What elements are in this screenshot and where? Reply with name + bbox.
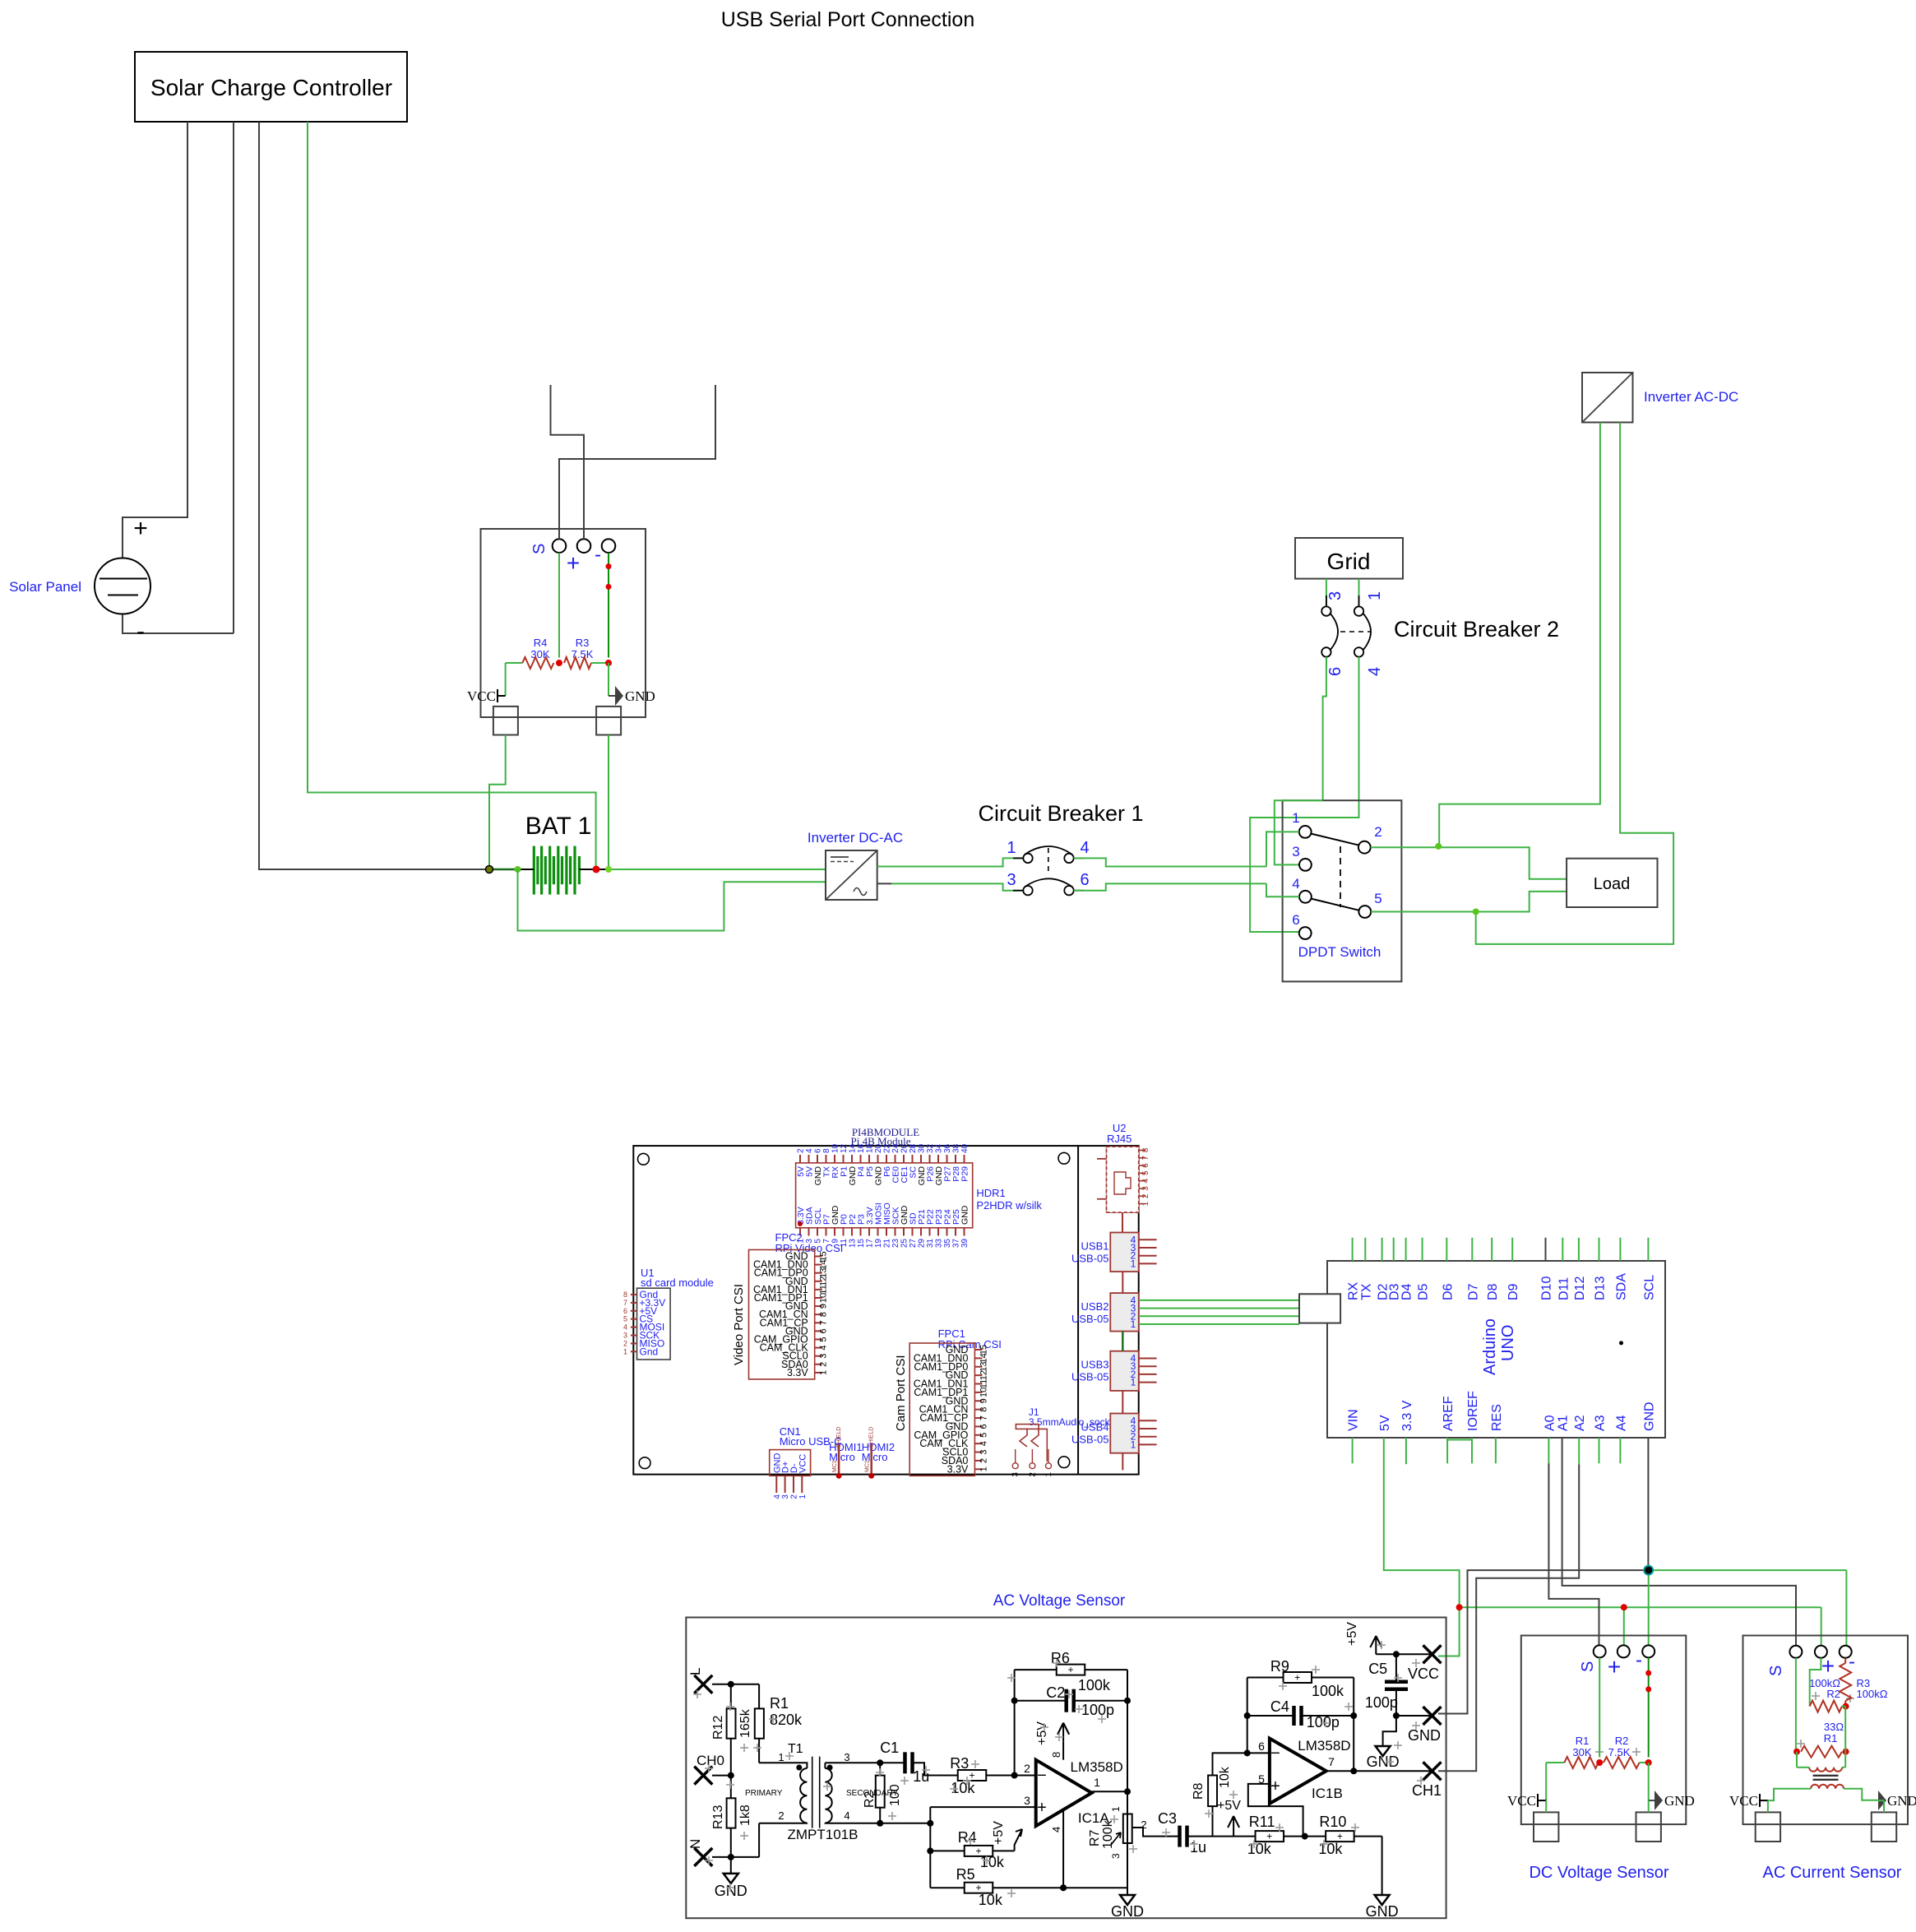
svg-text:25: 25 bbox=[900, 1239, 909, 1249]
svg-text:5: 5 bbox=[819, 1337, 829, 1341]
svg-text:2: 2 bbox=[1374, 824, 1381, 840]
svg-text:+: + bbox=[1037, 1799, 1047, 1817]
svg-text:D5: D5 bbox=[1417, 1283, 1431, 1300]
svg-text:GND: GND bbox=[960, 1205, 970, 1225]
svg-text:37: 37 bbox=[952, 1239, 961, 1249]
svg-text:3: 3 bbox=[844, 1751, 849, 1763]
svg-text:23: 23 bbox=[891, 1239, 900, 1249]
svg-text:1: 1 bbox=[1131, 1318, 1136, 1330]
svg-text:1: 1 bbox=[1292, 810, 1299, 826]
svg-text:USB-05: USB-05 bbox=[1071, 1434, 1109, 1446]
svg-text:40: 40 bbox=[960, 1143, 970, 1153]
svg-text:820k: 820k bbox=[770, 1712, 803, 1728]
svg-text:7: 7 bbox=[1141, 1156, 1150, 1161]
svg-text:USB Serial Port Connection: USB Serial Port Connection bbox=[721, 8, 974, 31]
svg-text:D11: D11 bbox=[1557, 1277, 1571, 1300]
svg-text:R2: R2 bbox=[863, 1791, 877, 1808]
svg-text:+: + bbox=[1337, 1831, 1343, 1842]
svg-text:4: 4 bbox=[805, 1148, 814, 1153]
svg-text:16: 16 bbox=[857, 1143, 866, 1153]
svg-text:3: 3 bbox=[1326, 591, 1344, 600]
svg-text:5: 5 bbox=[1374, 891, 1381, 906]
svg-text:-: - bbox=[137, 618, 145, 645]
svg-text:10k: 10k bbox=[1218, 1766, 1232, 1788]
svg-text:35: 35 bbox=[943, 1239, 952, 1249]
svg-text:−: − bbox=[1037, 1767, 1047, 1785]
svg-text:Inverter DC-AC: Inverter DC-AC bbox=[808, 830, 903, 846]
svg-text:10: 10 bbox=[819, 1293, 829, 1303]
svg-text:R10: R10 bbox=[1319, 1814, 1346, 1830]
svg-text:+: + bbox=[1266, 1831, 1272, 1842]
svg-text:D9: D9 bbox=[1506, 1283, 1520, 1300]
svg-text:39: 39 bbox=[960, 1239, 970, 1249]
svg-text:100k: 100k bbox=[1078, 1677, 1111, 1693]
svg-text:GND: GND bbox=[1642, 1402, 1656, 1431]
svg-text:10: 10 bbox=[831, 1143, 840, 1153]
svg-text:10k: 10k bbox=[951, 1780, 975, 1796]
svg-text:1: 1 bbox=[1141, 1201, 1150, 1206]
svg-text:MC1: MC1 bbox=[832, 1460, 838, 1472]
svg-text:8: 8 bbox=[1141, 1147, 1150, 1152]
svg-text:100k: 100k bbox=[1101, 1819, 1115, 1849]
svg-text:S: S bbox=[1767, 1666, 1785, 1676]
svg-text:USB-05: USB-05 bbox=[1071, 1371, 1109, 1383]
svg-text:+: + bbox=[567, 550, 580, 576]
svg-text:A3: A3 bbox=[1594, 1415, 1608, 1431]
svg-text:LM358D: LM358D bbox=[1071, 1759, 1123, 1775]
svg-text:DC Voltage Sensor: DC Voltage Sensor bbox=[1529, 1864, 1668, 1882]
svg-text:17: 17 bbox=[866, 1239, 875, 1249]
svg-text:1: 1 bbox=[778, 1751, 784, 1763]
svg-text:D6: D6 bbox=[1441, 1283, 1455, 1300]
svg-text:DPDT Switch: DPDT Switch bbox=[1298, 944, 1381, 960]
svg-text:38: 38 bbox=[952, 1143, 961, 1153]
svg-text:+: + bbox=[1067, 1664, 1073, 1675]
svg-text:USB-05: USB-05 bbox=[1071, 1313, 1109, 1325]
svg-text:GND: GND bbox=[1408, 1727, 1441, 1744]
svg-text:8: 8 bbox=[979, 1407, 988, 1412]
svg-text:−: − bbox=[1270, 1744, 1280, 1763]
svg-text:3: 3 bbox=[781, 1494, 790, 1499]
svg-text:100kΩ: 100kΩ bbox=[1857, 1688, 1888, 1700]
svg-text:12: 12 bbox=[819, 1276, 829, 1286]
svg-text:PRIMARY: PRIMARY bbox=[745, 1789, 783, 1798]
svg-text:VCC: VCC bbox=[798, 1454, 808, 1473]
svg-text:+: + bbox=[133, 515, 148, 542]
svg-text:+: + bbox=[1270, 1777, 1280, 1795]
svg-text:+5V: +5V bbox=[1217, 1799, 1241, 1813]
svg-text:Solar Charge Controller: Solar Charge Controller bbox=[150, 75, 392, 100]
svg-text:100p: 100p bbox=[1081, 1702, 1114, 1718]
svg-text:30K: 30K bbox=[1572, 1746, 1591, 1758]
svg-text:31: 31 bbox=[926, 1239, 935, 1249]
svg-text:C2: C2 bbox=[1046, 1684, 1065, 1701]
svg-text:AC Voltage Sensor: AC Voltage Sensor bbox=[993, 1592, 1126, 1610]
svg-text:RX: RX bbox=[1347, 1281, 1361, 1300]
svg-text:5V: 5V bbox=[1378, 1415, 1392, 1431]
svg-text:R12: R12 bbox=[711, 1716, 725, 1740]
svg-text:1: 1 bbox=[1366, 591, 1384, 600]
svg-text:2: 2 bbox=[623, 1339, 627, 1347]
svg-text:1u: 1u bbox=[1190, 1839, 1206, 1856]
svg-text:+: + bbox=[1608, 1654, 1621, 1679]
svg-text:USB3: USB3 bbox=[1081, 1359, 1109, 1371]
svg-text:Circuit Breaker 1: Circuit Breaker 1 bbox=[978, 801, 1143, 826]
svg-text:3: 3 bbox=[1292, 844, 1299, 859]
svg-text:8: 8 bbox=[819, 1312, 829, 1317]
svg-text:1u: 1u bbox=[913, 1768, 929, 1785]
svg-text:D12: D12 bbox=[1573, 1276, 1587, 1300]
svg-text:10: 10 bbox=[979, 1388, 988, 1397]
svg-text:+: + bbox=[1294, 1672, 1300, 1684]
svg-text:6: 6 bbox=[814, 1148, 823, 1153]
svg-text:1: 1 bbox=[1094, 1776, 1100, 1789]
svg-text:CH1: CH1 bbox=[1412, 1782, 1442, 1799]
svg-text:1: 1 bbox=[1007, 839, 1016, 857]
svg-text:4: 4 bbox=[1366, 667, 1384, 676]
svg-text:26: 26 bbox=[900, 1143, 909, 1153]
svg-text:C3: C3 bbox=[1158, 1810, 1177, 1827]
svg-text:+5V: +5V bbox=[1345, 1622, 1359, 1646]
svg-text:SCL: SCL bbox=[1642, 1275, 1656, 1300]
svg-text:USB-05: USB-05 bbox=[1071, 1253, 1109, 1265]
svg-text:8: 8 bbox=[822, 1148, 831, 1153]
svg-text:USB4: USB4 bbox=[1081, 1421, 1109, 1434]
svg-text:6: 6 bbox=[1258, 1740, 1265, 1753]
svg-text:9: 9 bbox=[979, 1398, 988, 1403]
svg-text:1k8: 1k8 bbox=[738, 1805, 752, 1826]
svg-text:1: 1 bbox=[819, 1370, 829, 1375]
svg-text:C1: C1 bbox=[880, 1740, 899, 1756]
svg-text:GND: GND bbox=[625, 688, 655, 704]
svg-text:A1: A1 bbox=[1557, 1415, 1571, 1431]
svg-text:MC1: MC1 bbox=[865, 1460, 871, 1472]
svg-text:4: 4 bbox=[1292, 876, 1299, 892]
svg-text:7: 7 bbox=[623, 1299, 627, 1307]
svg-text:18: 18 bbox=[866, 1143, 875, 1153]
svg-text:14: 14 bbox=[849, 1143, 858, 1153]
svg-text:2: 2 bbox=[1024, 1762, 1030, 1775]
svg-text:GND: GND bbox=[1887, 1793, 1916, 1809]
svg-text:15: 15 bbox=[857, 1239, 866, 1249]
svg-text:R4: R4 bbox=[534, 637, 548, 649]
svg-text:10k: 10k bbox=[1318, 1841, 1343, 1857]
svg-text:C4: C4 bbox=[1270, 1698, 1289, 1715]
svg-text:-: - bbox=[1849, 1651, 1855, 1673]
svg-text:1: 1 bbox=[1131, 1439, 1136, 1450]
svg-text:+: + bbox=[1821, 1653, 1835, 1679]
svg-text:1: 1 bbox=[623, 1347, 627, 1355]
svg-text:P29: P29 bbox=[960, 1166, 970, 1182]
svg-text:Grid: Grid bbox=[1327, 549, 1371, 574]
svg-text:SDA: SDA bbox=[1614, 1273, 1628, 1300]
svg-text:R13: R13 bbox=[711, 1805, 725, 1829]
svg-text:2: 2 bbox=[797, 1148, 806, 1153]
svg-text:R8: R8 bbox=[1192, 1782, 1206, 1800]
svg-text:3: 3 bbox=[623, 1332, 627, 1340]
svg-text:T1: T1 bbox=[788, 1742, 803, 1756]
svg-text:6: 6 bbox=[979, 1424, 988, 1429]
svg-text:9: 9 bbox=[819, 1304, 829, 1309]
svg-text:GND: GND bbox=[1367, 1754, 1400, 1770]
svg-text:6: 6 bbox=[819, 1328, 829, 1333]
svg-text:5: 5 bbox=[623, 1315, 627, 1323]
svg-text:R1: R1 bbox=[1824, 1732, 1838, 1744]
svg-text:ZMPT101B: ZMPT101B bbox=[788, 1827, 858, 1842]
svg-text:VCC: VCC bbox=[1408, 1666, 1439, 1682]
svg-text:+: + bbox=[975, 1882, 981, 1893]
svg-text:30: 30 bbox=[918, 1143, 927, 1153]
svg-text:S: S bbox=[530, 544, 548, 554]
svg-text:6: 6 bbox=[1080, 871, 1089, 889]
svg-text:3.3V: 3.3V bbox=[787, 1367, 808, 1378]
svg-text:L: L bbox=[687, 1668, 703, 1675]
svg-text:165k: 165k bbox=[738, 1708, 752, 1738]
svg-text:10k: 10k bbox=[979, 1892, 1003, 1908]
svg-text:A0: A0 bbox=[1543, 1415, 1557, 1431]
svg-text:3.3 V: 3.3 V bbox=[1400, 1400, 1414, 1431]
svg-text:27: 27 bbox=[909, 1239, 918, 1249]
svg-text:3: 3 bbox=[1110, 1853, 1122, 1859]
svg-text:AC Current Sensor: AC Current Sensor bbox=[1763, 1864, 1902, 1882]
svg-text:+: + bbox=[975, 1845, 981, 1856]
svg-text:IC1B: IC1B bbox=[1312, 1786, 1343, 1801]
svg-text:GND: GND bbox=[1664, 1793, 1695, 1809]
svg-text:7: 7 bbox=[819, 1320, 829, 1325]
svg-text:3: 3 bbox=[979, 1449, 988, 1454]
svg-text:34: 34 bbox=[935, 1143, 944, 1153]
svg-text:5: 5 bbox=[979, 1433, 988, 1438]
svg-text:2: 2 bbox=[819, 1362, 829, 1367]
svg-text:1: 1 bbox=[1131, 1377, 1136, 1388]
svg-text:1: 1 bbox=[1110, 1806, 1122, 1812]
svg-text:R4: R4 bbox=[958, 1829, 977, 1846]
svg-text:12: 12 bbox=[979, 1370, 988, 1380]
svg-text:3: 3 bbox=[1024, 1794, 1030, 1807]
svg-text:33: 33 bbox=[935, 1239, 944, 1249]
svg-text:3: 3 bbox=[1011, 1472, 1020, 1477]
svg-text:R5: R5 bbox=[956, 1866, 975, 1883]
svg-text:2: 2 bbox=[778, 1809, 784, 1822]
svg-text:RJ45: RJ45 bbox=[1107, 1133, 1132, 1145]
svg-text:4: 4 bbox=[979, 1441, 988, 1446]
svg-text:-: - bbox=[1636, 1649, 1642, 1671]
svg-text:VCC: VCC bbox=[1507, 1793, 1536, 1809]
svg-text:21: 21 bbox=[883, 1239, 892, 1249]
svg-text:USB2: USB2 bbox=[1081, 1300, 1109, 1313]
svg-text:32: 32 bbox=[926, 1143, 935, 1153]
svg-text:1: 1 bbox=[798, 1494, 808, 1499]
svg-text:2: 2 bbox=[1028, 1472, 1037, 1477]
svg-text:10k: 10k bbox=[1247, 1841, 1272, 1857]
svg-text:BAT 1: BAT 1 bbox=[525, 813, 592, 840]
svg-text:Inverter AC-DC: Inverter AC-DC bbox=[1644, 389, 1738, 405]
svg-text:LM358D: LM358D bbox=[1298, 1738, 1350, 1754]
svg-text:1: 1 bbox=[1131, 1258, 1136, 1269]
svg-text:R3: R3 bbox=[576, 637, 590, 649]
svg-text:+5V: +5V bbox=[992, 1821, 1006, 1845]
svg-text:24: 24 bbox=[891, 1143, 900, 1153]
svg-text:+5V: +5V bbox=[1035, 1721, 1049, 1745]
svg-text:IOREF: IOREF bbox=[1466, 1391, 1480, 1431]
svg-text:20: 20 bbox=[874, 1143, 883, 1153]
svg-text:GND: GND bbox=[1366, 1903, 1399, 1920]
svg-text:VCC: VCC bbox=[467, 688, 496, 704]
svg-text:28: 28 bbox=[909, 1143, 918, 1153]
svg-text:AREF: AREF bbox=[1442, 1396, 1456, 1431]
svg-text:+: + bbox=[969, 1770, 974, 1781]
svg-text:100k: 100k bbox=[1312, 1683, 1344, 1699]
svg-text:GND: GND bbox=[1111, 1903, 1144, 1920]
svg-text:VIN: VIN bbox=[1347, 1409, 1361, 1431]
svg-text:D4: D4 bbox=[1400, 1283, 1414, 1300]
svg-text:sd card module: sd card module bbox=[641, 1276, 714, 1289]
svg-text:Load: Load bbox=[1594, 875, 1631, 893]
svg-text:29: 29 bbox=[918, 1239, 927, 1249]
svg-text:TX: TX bbox=[1359, 1283, 1373, 1300]
svg-text:7: 7 bbox=[1328, 1755, 1335, 1768]
svg-text:Video Port CSI: Video Port CSI bbox=[732, 1284, 746, 1365]
svg-text:R11: R11 bbox=[1249, 1814, 1275, 1830]
svg-text:C5: C5 bbox=[1368, 1661, 1387, 1677]
svg-text:R2: R2 bbox=[1615, 1735, 1629, 1747]
svg-text:Cam Port CSI: Cam Port CSI bbox=[894, 1355, 908, 1431]
svg-text:12: 12 bbox=[840, 1143, 849, 1153]
svg-text:S: S bbox=[1579, 1661, 1597, 1672]
svg-text:R1: R1 bbox=[770, 1695, 789, 1712]
svg-text:P2HDR w/silk: P2HDR w/silk bbox=[976, 1199, 1042, 1212]
svg-text:2: 2 bbox=[979, 1458, 988, 1463]
svg-text:D13: D13 bbox=[1594, 1276, 1608, 1300]
svg-text:Circuit Breaker 2: Circuit Breaker 2 bbox=[1394, 617, 1559, 642]
svg-text:6: 6 bbox=[1141, 1163, 1150, 1168]
svg-text:100p: 100p bbox=[1365, 1694, 1398, 1711]
svg-text:11: 11 bbox=[979, 1379, 988, 1388]
svg-text:4: 4 bbox=[1050, 1827, 1062, 1832]
svg-text:1: 1 bbox=[979, 1466, 988, 1471]
svg-text:3: 3 bbox=[1007, 871, 1016, 889]
svg-text:R2: R2 bbox=[1826, 1688, 1840, 1700]
svg-text:A2: A2 bbox=[1573, 1415, 1587, 1431]
svg-text:VCC: VCC bbox=[1729, 1793, 1758, 1809]
svg-text:8: 8 bbox=[623, 1290, 627, 1299]
svg-text:1: 1 bbox=[1044, 1472, 1053, 1477]
svg-text:USB1: USB1 bbox=[1081, 1240, 1109, 1253]
svg-text:-: - bbox=[595, 544, 601, 566]
svg-text:6: 6 bbox=[1326, 667, 1344, 676]
svg-text:100p: 100p bbox=[1307, 1714, 1340, 1730]
svg-text:13: 13 bbox=[849, 1239, 858, 1249]
svg-text:2: 2 bbox=[1141, 1193, 1150, 1198]
svg-text:19: 19 bbox=[874, 1239, 883, 1249]
svg-text:RES: RES bbox=[1490, 1404, 1504, 1431]
svg-text:D10: D10 bbox=[1540, 1276, 1554, 1300]
svg-text:4: 4 bbox=[1141, 1178, 1150, 1183]
svg-text:4: 4 bbox=[1080, 839, 1089, 857]
svg-text:Gnd: Gnd bbox=[640, 1346, 659, 1357]
svg-text:R1: R1 bbox=[1576, 1735, 1590, 1747]
svg-text:6: 6 bbox=[623, 1307, 627, 1315]
svg-text:3: 3 bbox=[1141, 1186, 1150, 1191]
svg-text:8: 8 bbox=[1050, 1752, 1062, 1758]
svg-text:Solar Panel: Solar Panel bbox=[9, 579, 81, 595]
svg-text:UNO: UNO bbox=[1499, 1325, 1517, 1361]
svg-text:HDR1: HDR1 bbox=[976, 1187, 1005, 1199]
svg-text:CH0: CH0 bbox=[697, 1753, 724, 1768]
svg-text:D8: D8 bbox=[1486, 1283, 1500, 1300]
svg-text:Arduino: Arduino bbox=[1481, 1318, 1499, 1375]
svg-text:22: 22 bbox=[883, 1143, 892, 1153]
svg-text:5: 5 bbox=[1141, 1170, 1150, 1175]
svg-text:3.3V: 3.3V bbox=[947, 1463, 969, 1475]
svg-text:4: 4 bbox=[844, 1809, 849, 1822]
svg-text:33Ω: 33Ω bbox=[1824, 1721, 1844, 1733]
svg-text:7: 7 bbox=[979, 1415, 988, 1420]
svg-text:3: 3 bbox=[819, 1354, 829, 1359]
svg-text:4: 4 bbox=[623, 1323, 627, 1332]
svg-text:4: 4 bbox=[819, 1346, 829, 1351]
svg-text:6: 6 bbox=[1292, 912, 1299, 928]
svg-text:100: 100 bbox=[888, 1784, 902, 1806]
svg-text:R7: R7 bbox=[1088, 1829, 1102, 1846]
svg-text:D7: D7 bbox=[1466, 1283, 1480, 1300]
svg-text:A4: A4 bbox=[1614, 1415, 1628, 1431]
svg-text:36: 36 bbox=[943, 1143, 952, 1153]
